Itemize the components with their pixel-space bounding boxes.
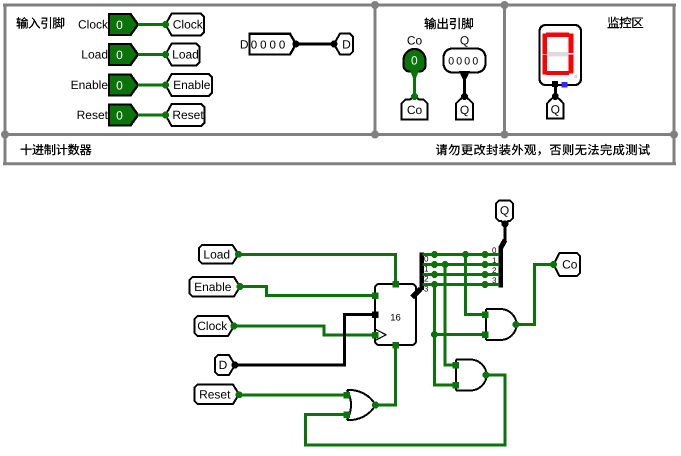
wire Load to counter top: [239, 254, 396, 283]
svg-text:Q: Q: [460, 34, 469, 48]
input pin Load: [109, 44, 138, 65]
svg-text:2: 2: [424, 275, 429, 284]
counter U1: [375, 284, 416, 345]
input pin Reset: [109, 105, 138, 126]
wire v3 (bit0) to AND1 upper: [466, 255, 485, 315]
counter clock triangle: [376, 330, 386, 341]
AND gate U2 (Co detect): [486, 309, 517, 340]
7seg input pin (black): [552, 81, 558, 87]
bit wire 0: [423, 253, 500, 256]
svg-text:D: D: [342, 37, 351, 51]
svg-text:D: D: [240, 38, 249, 52]
wire v1 branch to AND1 lower: [435, 333, 485, 336]
counter pin top (load): [392, 281, 399, 288]
svg-text:D: D: [219, 358, 228, 372]
svg-text:Load: Load: [81, 48, 108, 62]
svg-text:0: 0: [424, 255, 429, 264]
separator 1: [374, 5, 377, 135]
svg-text:1: 1: [424, 265, 429, 274]
AND gate U3 (reset detect): [456, 360, 487, 391]
tunnel Reset (input section): [166, 104, 205, 126]
panel frame: [1, 1, 678, 165]
wire pin-Load to tunnel: [138, 53, 166, 56]
bus wire Q tunnel to splitter: [503, 224, 506, 242]
bus wire Q pin to tunnel: [459, 71, 470, 79]
junction v3 on L0: [462, 251, 469, 258]
svg-text:Clock: Clock: [197, 319, 228, 333]
tunnel Q (monitor): [547, 96, 564, 119]
wire pin-Enable to tunnel: [138, 84, 166, 87]
wire OR out to counter clear: [376, 346, 396, 405]
splitter right (to Q tunnel): [501, 240, 506, 249]
wire pin-Reset to tunnel: [138, 114, 166, 117]
svg-text:16: 16: [390, 313, 401, 324]
wire Enable to counter EN: [240, 287, 374, 296]
counter pin bottom (clear): [392, 342, 399, 349]
counter pin EN: [372, 292, 379, 299]
tunnel Reset (schematic): [195, 385, 240, 405]
svg-text:Q: Q: [500, 203, 509, 217]
counter pin CLK: [372, 332, 379, 339]
svg-text:Q: Q: [460, 103, 469, 117]
bit wire 3: [423, 283, 500, 286]
wire pin-Clock to tunnel: [138, 23, 166, 26]
input pin Clock: [109, 14, 138, 35]
title 输出引脚: [425, 18, 473, 30]
title 监控区: [608, 17, 644, 28]
svg-text:Reset: Reset: [77, 108, 109, 122]
tunnel Clock (input section): [166, 14, 205, 36]
input pin Enable: [109, 75, 138, 96]
svg-text:0: 0: [411, 54, 418, 68]
tunnel D (schematic): [215, 355, 235, 375]
wire v1 (bit3) down: [435, 285, 455, 386]
title 输入引脚: [17, 17, 65, 29]
wire Reset to OR input: [239, 393, 347, 396]
junction v2 on L1: [442, 261, 449, 268]
wire AND1 out to Co tunnel: [516, 265, 553, 325]
tunnel D (input section): [334, 34, 353, 55]
tunnel Clock (schematic): [195, 316, 235, 336]
wire Clock to counter CLK: [234, 326, 374, 335]
svg-text:Clock: Clock: [78, 18, 109, 32]
wire v2 (bit1) to AND2 upper: [445, 265, 454, 366]
svg-text:Enable: Enable: [194, 280, 232, 294]
bus wire D pin to D tunnel: [296, 43, 335, 46]
svg-text:Co: Co: [407, 34, 423, 48]
7seg pin (blue): [562, 82, 568, 88]
svg-text:0: 0: [116, 18, 123, 32]
counter pin D (bus): [372, 311, 379, 318]
separator 2: [503, 5, 506, 135]
svg-text:Enable: Enable: [173, 78, 211, 92]
svg-text:Load: Load: [172, 48, 199, 62]
strip note 请勿更改封装外观，否则无法完成测试: [436, 144, 650, 156]
tunnel Enable (input section): [166, 74, 213, 96]
svg-text:Load: Load: [203, 247, 230, 261]
svg-text:Reset: Reset: [172, 108, 204, 122]
svg-text:Enable: Enable: [71, 78, 109, 92]
svg-text:Co: Co: [407, 103, 423, 117]
OR gate U4: [347, 390, 376, 420]
bit wire 1: [423, 263, 500, 266]
tunnel Load (input section): [166, 44, 200, 66]
tunnel Enable (schematic): [190, 277, 241, 297]
splitter left (from counter Q): [412, 289, 421, 298]
output pin Co (green dome): [404, 49, 426, 72]
svg-text:0: 0: [116, 109, 123, 123]
svg-text:Co: Co: [562, 258, 578, 272]
tunnel Co (output section): [402, 96, 428, 120]
svg-text:0: 0: [116, 79, 123, 93]
input pin D (4-bit): [250, 34, 297, 55]
bus wire D to counter: [235, 315, 374, 366]
strip label 十进制计数器: [21, 144, 92, 155]
output pin Q (4-bit): [444, 49, 486, 73]
tunnel Q (output section): [456, 96, 473, 120]
svg-text:Clock: Clock: [173, 18, 204, 32]
svg-text:0: 0: [116, 48, 123, 62]
svg-text:0000: 0000: [251, 40, 289, 52]
svg-text:3: 3: [424, 285, 429, 294]
bit wire 2: [423, 273, 500, 276]
wire Co pin to tunnel: [413, 72, 416, 96]
tunnel Load (schematic): [199, 245, 239, 264]
tunnel Q (schematic top): [496, 201, 513, 225]
wire 7seg to Q tunnel: [554, 86, 557, 96]
7-segment display: [540, 25, 582, 85]
svg-text:Q: Q: [551, 103, 560, 117]
tunnel Co (schematic): [554, 253, 581, 276]
svg-text:0000: 0000: [448, 56, 480, 68]
svg-text:Reset: Reset: [199, 387, 231, 401]
wire AND2 out feedback loop: [306, 375, 506, 445]
